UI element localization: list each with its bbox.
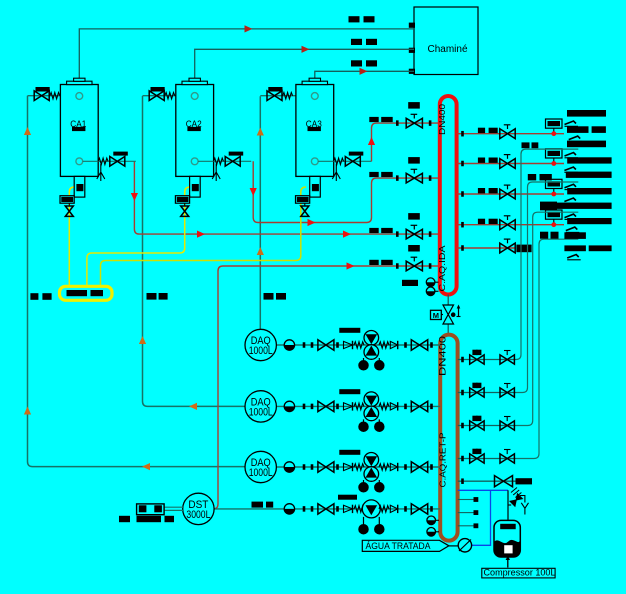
svg-text:Compressor 100L: Compressor 100L xyxy=(484,567,556,578)
svg-text:C.AQ.IDA: C.AQ.IDA xyxy=(438,245,447,292)
svg-text:M: M xyxy=(433,311,439,320)
svg-text:DN400: DN400 xyxy=(437,104,447,135)
svg-text:Chaminé: Chaminé xyxy=(427,44,467,55)
svg-text:1000L: 1000L xyxy=(249,345,273,357)
svg-text:DN400: DN400 xyxy=(437,336,447,376)
svg-text:1000L: 1000L xyxy=(249,406,273,418)
svg-text:1000L: 1000L xyxy=(249,467,273,479)
svg-text:C.AQ.RET-P: C.AQ.RET-P xyxy=(438,432,447,488)
svg-text:ÁGUA TRATADA: ÁGUA TRATADA xyxy=(366,541,431,551)
svg-text:3000L: 3000L xyxy=(186,509,210,521)
